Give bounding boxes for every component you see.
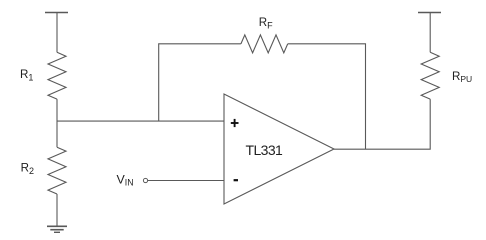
pin + (non-inverting input) [231, 119, 239, 127]
svg-text:R2: R2 [21, 162, 34, 177]
wire node A: junction to + input [57, 120, 224, 122]
svg-text:TL331: TL331 [246, 142, 284, 158]
resistor R2 [48, 147, 66, 194]
resistor R1 [48, 52, 66, 99]
wire feedback top right segment + right vertical to output [288, 44, 366, 149]
power rail V+ right [418, 13, 441, 53]
wire R2 bottom to ground [56, 194, 58, 226]
resistor RPU [421, 52, 439, 99]
terminal VIN open circle [143, 178, 147, 182]
power rail V+ left [45, 13, 68, 53]
resistor RF [241, 35, 288, 53]
svg-text:RPU: RPU [452, 70, 472, 84]
pin - (inverting input) [234, 179, 238, 181]
wire feedback left vertical + top left segment [159, 44, 241, 121]
svg-text:VIN: VIN [117, 172, 134, 187]
svg-text:RF: RF [259, 16, 273, 31]
wire output + RPU bottom vertical [334, 99, 430, 149]
ground [47, 226, 67, 232]
wire - input [148, 180, 224, 182]
svg-text:R1: R1 [20, 68, 33, 83]
op-amp U1 triangle [224, 94, 334, 204]
wire R1 bottom to R2 top (left rail) [56, 99, 58, 147]
